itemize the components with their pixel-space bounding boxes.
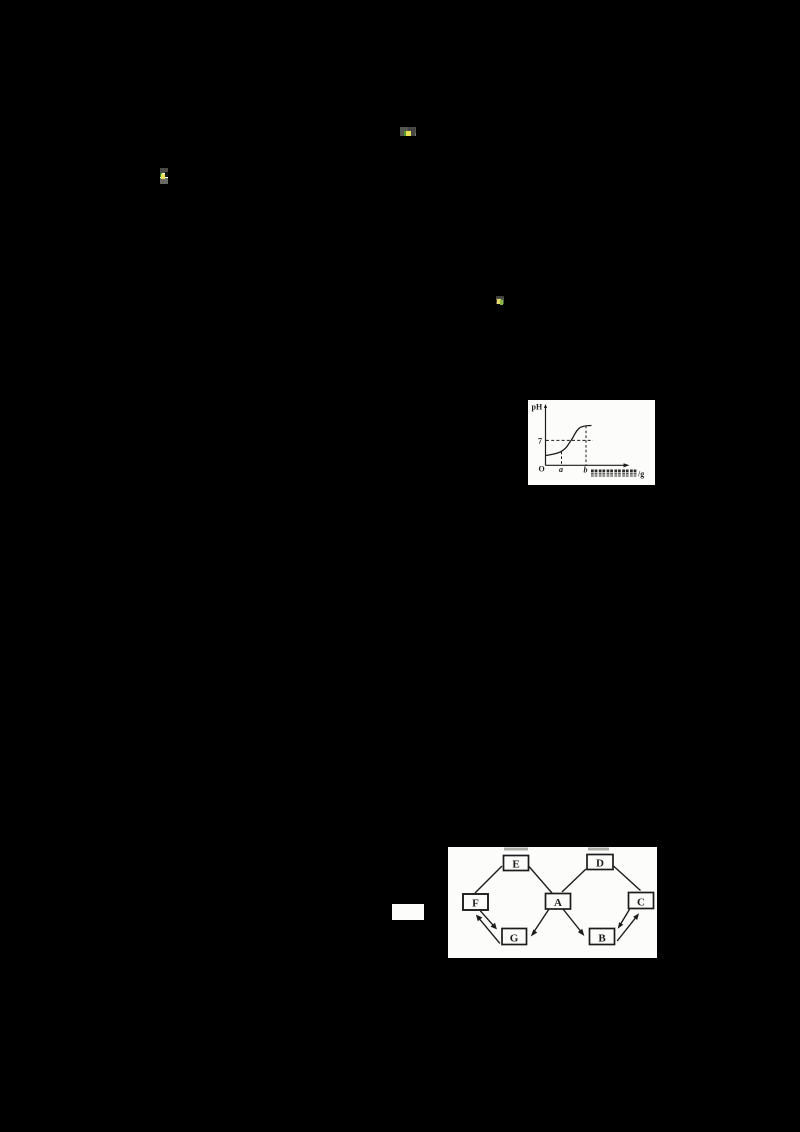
double arrow C-B (down line) (619, 909, 629, 926)
svg-text:O: O (539, 465, 545, 474)
box C (629, 893, 654, 909)
arrow A to G (533, 909, 550, 934)
tiny broken-image icon 1 (vertical) (160, 168, 168, 184)
CJK caption 加入溶液质量/g (simulated glyph blocks) (591, 470, 636, 477)
svg-text:C: C (637, 897, 645, 909)
box D (587, 855, 613, 870)
wire D-C (614, 866, 641, 891)
substance relationship diagram image (448, 847, 657, 958)
pH titration chart image (528, 400, 655, 485)
tiny broken-image icon 2 (horizontal) (400, 127, 416, 136)
wire D-A (562, 869, 586, 892)
svg-text:D: D (596, 858, 604, 870)
box A (546, 894, 571, 910)
svg-text:/g: /g (637, 470, 644, 479)
tiny broken-image icon 3 (small square) (496, 296, 504, 304)
svg-text:B: B (598, 933, 606, 945)
scan smudge above box D (588, 848, 609, 851)
wire E-F (475, 866, 502, 893)
y-axis (545, 406, 547, 466)
box F (463, 894, 488, 910)
wire E-A (529, 867, 552, 894)
double arrow C-B (up line) (617, 916, 637, 941)
svg-text:7: 7 (538, 437, 542, 446)
box B (590, 929, 615, 945)
box G (502, 929, 527, 945)
scan smudge above box E (504, 848, 528, 851)
x-axis (546, 464, 628, 466)
double arrow F-G (down line) (480, 911, 495, 928)
svg-text:A: A (554, 897, 562, 909)
titration S-curve (546, 426, 592, 456)
x-axis arrowhead (624, 463, 630, 467)
svg-text:G: G (510, 933, 519, 945)
dashed vertical at a (561, 452, 563, 465)
svg-text:pH: pH (532, 403, 543, 412)
svg-text:F: F (472, 898, 479, 910)
svg-text:a: a (559, 465, 563, 474)
double arrow F-G (up line) (478, 917, 500, 944)
dashed line at pH 7 (546, 439, 593, 441)
box E (504, 856, 529, 871)
small white answer-blank rectangle (392, 904, 424, 920)
dashed vertical at b (585, 426, 587, 465)
svg-text:E: E (512, 859, 519, 871)
svg-text:b: b (584, 466, 588, 475)
arrow A to B (563, 909, 583, 934)
